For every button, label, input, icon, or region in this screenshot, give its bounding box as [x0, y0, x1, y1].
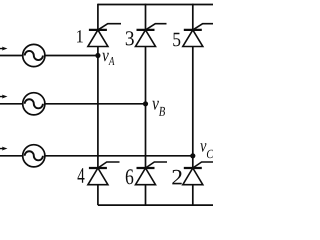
ac source phase B — [23, 93, 45, 115]
label thyristor 5 — [173, 33, 180, 47]
wire leg2 top (rail to T3) — [145, 4, 147, 30]
thyristor 6 — [136, 162, 168, 185]
wire phase C left — [0, 155, 23, 157]
thyristor 2 — [183, 162, 213, 185]
ac source phase C — [23, 145, 45, 167]
wire leg1 middle (T1 to T4 through node A) — [97, 47, 99, 169]
wire leg2 bottom (T6 to rail) — [145, 185, 147, 205]
wire leg3 bottom (T2 to rail) — [192, 185, 194, 205]
wire phase B left — [0, 103, 23, 105]
thyristor 3 — [136, 24, 167, 47]
wire leg3 top (rail to T5) — [192, 4, 194, 30]
label thyristor 2 — [172, 170, 181, 185]
wire phase B right — [45, 103, 146, 105]
label thyristor 4 — [78, 168, 85, 183]
arrow input phase C — [0, 147, 8, 151]
thyristor 5 — [183, 24, 213, 47]
ac source phase A — [23, 44, 45, 66]
label thyristor 1 — [77, 30, 83, 42]
node C junction dot — [190, 153, 195, 158]
wire leg1 top (rail to T1) — [97, 4, 99, 30]
wire bottom dc rail — [98, 204, 213, 206]
node A junction dot — [95, 53, 100, 58]
label node vB — [152, 101, 165, 116]
wire top dc rail — [98, 4, 213, 6]
wire phase A left — [0, 55, 23, 57]
arrow input phase A — [0, 47, 8, 51]
wire leg3 middle (T5 to T2 through node C) — [192, 47, 194, 169]
wire phase A right — [45, 55, 98, 57]
label node vC — [200, 143, 213, 158]
wire leg2 middle (T3 to T6 through node B) — [145, 47, 147, 169]
arrow input phase B — [0, 95, 8, 99]
wire phase C right — [45, 155, 193, 157]
thyristor 1 — [88, 24, 121, 47]
thyristor 4 — [88, 162, 120, 185]
node B junction dot — [143, 101, 148, 106]
label thyristor 6 — [126, 169, 134, 184]
label node vA — [102, 53, 114, 65]
wire leg1 bottom (T4 to rail) — [97, 185, 99, 205]
label thyristor 3 — [126, 31, 134, 45]
